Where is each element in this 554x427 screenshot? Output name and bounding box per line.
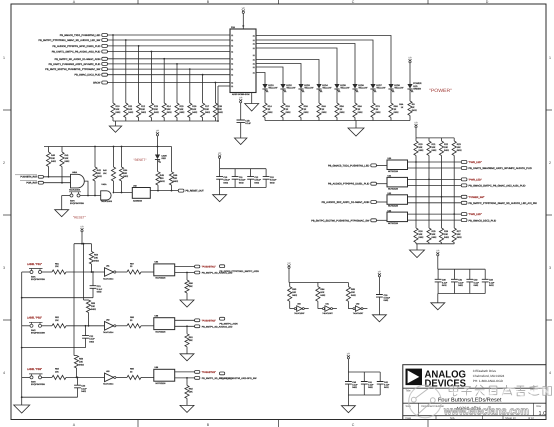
wire to buffer bbox=[141, 271, 154, 273]
svg-text:0402: 0402 bbox=[458, 284, 463, 287]
svg-text:LED7: LED7 bbox=[376, 84, 382, 87]
svg-text:12: 12 bbox=[231, 50, 233, 53]
pushbutton SW2 bbox=[29, 322, 45, 334]
svg-text:0402: 0402 bbox=[394, 111, 400, 114]
svg-text:U51: U51 bbox=[106, 265, 109, 268]
svg-text:Chelmsford, MA 01824: Chelmsford, MA 01824 bbox=[473, 374, 505, 378]
svg-text:U60: U60 bbox=[297, 303, 300, 306]
svg-text:0402: 0402 bbox=[97, 291, 102, 294]
ground gate bypass bbox=[372, 315, 386, 322]
LED DS9 POWER green bbox=[407, 82, 421, 92]
svg-text:0402: 0402 bbox=[432, 236, 438, 239]
wire cap bank3 top bus bbox=[438, 268, 485, 270]
wire gate U41A to buffer U42 bbox=[113, 192, 133, 194]
capacitor C21 debounce bbox=[90, 272, 103, 298]
svg-text:C22: C22 bbox=[89, 335, 94, 338]
svg-text:R41: R41 bbox=[65, 154, 70, 157]
title block address text bbox=[473, 369, 505, 383]
wire pull-up distribution bus bbox=[74, 243, 92, 356]
capacitor C22 debounce bbox=[82, 326, 95, 348]
wire row main bbox=[66, 271, 105, 273]
resistor R57 series 33 bbox=[127, 262, 141, 274]
svg-text:A: A bbox=[73, 0, 76, 4]
LED DS4 yellow bbox=[316, 84, 332, 92]
svg-text:"PWR_LED": "PWR_LED" bbox=[469, 178, 482, 181]
svg-text:"PUSHBTN2": "PUSHBTN2" bbox=[202, 319, 216, 322]
svg-text:EVQP34C03W: EVQP34C03W bbox=[31, 278, 45, 281]
svg-text:Title: Title bbox=[406, 390, 411, 393]
resistor R58 series 33 bbox=[127, 316, 141, 328]
svg-text:PB_AUDIO_SD2TWI_AXI2-GPI1_SW: PB_AUDIO_SD2TWI_AXI2-GPI1_SW bbox=[220, 377, 258, 380]
svg-text:0402: 0402 bbox=[218, 111, 224, 114]
wire buffer outputs bbox=[175, 372, 195, 379]
wire pull-up column 1 vertical bbox=[415, 156, 417, 229]
svg-text:PB_UART1_SMTPC_PB_AUDIO_AXI2_P: PB_UART1_SMTPC_PB_AUDIO_AXI2_PLID bbox=[52, 51, 101, 54]
svg-text:PB_UART1_SMAOEM2_AXIP1_GPUMP2_: PB_UART1_SMAOEM2_AXIP1_GPUMP2_AUDIO1_PLI… bbox=[469, 167, 532, 170]
capacitor C31 0.1uF bbox=[451, 269, 464, 293]
wire gate to series resistor 2 bbox=[116, 325, 127, 327]
svg-text:10K: 10K bbox=[51, 157, 55, 160]
resistor R56 pull-up 10K bbox=[74, 356, 84, 378]
wire U1 pin to LED column 6 bbox=[256, 64, 301, 85]
svg-text:LED4: LED4 bbox=[322, 84, 328, 87]
svg-text:0402: 0402 bbox=[457, 236, 463, 239]
resistor R25 pull-down 10K bbox=[427, 228, 437, 243]
svg-text:PUSHBTN_RST: PUSHBTN_RST bbox=[20, 176, 37, 179]
svg-text:0402: 0402 bbox=[192, 111, 198, 114]
wire to buffer bbox=[141, 325, 154, 327]
svg-text:10K: 10K bbox=[432, 146, 436, 149]
svg-text:NC7SZ126: NC7SZ126 bbox=[388, 222, 399, 225]
svg-text:0402: 0402 bbox=[154, 111, 160, 114]
svg-text:1K: 1K bbox=[340, 108, 343, 111]
net label input buffer row 4 bbox=[311, 219, 387, 223]
svg-text:YELLOW: YELLOW bbox=[358, 86, 368, 89]
svg-text:3 Elizabeth Drive: 3 Elizabeth Drive bbox=[473, 369, 497, 373]
svg-text:0.01uF: 0.01uF bbox=[254, 179, 261, 182]
buffer U55 NC7SZ126 bbox=[154, 315, 175, 334]
node PB2 sense connectors bbox=[195, 319, 233, 328]
svg-text:10K: 10K bbox=[116, 108, 120, 111]
svg-text:10K: 10K bbox=[55, 370, 59, 373]
svg-text:0402: 0402 bbox=[123, 175, 129, 178]
svg-text:0402: 0402 bbox=[116, 111, 122, 114]
svg-text:R46: R46 bbox=[173, 174, 178, 177]
svg-text:0402: 0402 bbox=[322, 111, 328, 114]
resistor R40 pull-up reset input bbox=[46, 147, 56, 178]
svg-text:0.1uF: 0.1uF bbox=[245, 122, 251, 125]
svg-text:R9A: R9A bbox=[399, 103, 404, 106]
svg-text:R21: R21 bbox=[432, 143, 437, 146]
svg-text:U53: U53 bbox=[106, 370, 109, 373]
svg-text:LED8: LED8 bbox=[394, 84, 400, 87]
svg-text:LABEL "PB1": LABEL "PB1" bbox=[27, 263, 42, 266]
svg-text:C21: C21 bbox=[97, 285, 102, 288]
svg-text:U55: U55 bbox=[155, 315, 160, 318]
resistor R13 pull-down bbox=[149, 51, 159, 121]
svg-text:PB_GMAC0_TXD1_PUSHBTN0_LED: PB_GMAC0_TXD1_PUSHBTN0_LED bbox=[60, 34, 101, 37]
resistor R61 pull-down bbox=[185, 326, 194, 354]
svg-text:R64: R64 bbox=[320, 288, 325, 291]
svg-text:"PWR_LED": "PWR_LED" bbox=[469, 161, 482, 164]
net label row 1 (left IC input) bbox=[60, 34, 230, 38]
gate U52 schmitt 74LVC1G14 bbox=[103, 318, 116, 334]
svg-text:NC7SZ126: NC7SZ126 bbox=[388, 187, 399, 190]
svg-text:10K: 10K bbox=[189, 339, 193, 342]
svg-text:D: D bbox=[486, 0, 489, 4]
svg-text:1.0: 1.0 bbox=[539, 411, 547, 417]
net label POR_RESET input bbox=[20, 181, 71, 185]
ground under U1 bbox=[245, 93, 259, 112]
capacitor C30 0.1uF bbox=[435, 269, 448, 293]
wire U1 pin to LED column 1 bbox=[256, 36, 391, 85]
svg-text:0402: 0402 bbox=[268, 111, 274, 114]
wire left ground bus bbox=[21, 272, 23, 405]
wire U1 pin to LED column 7 bbox=[256, 67, 283, 84]
wire U1 pin to LED column 3 bbox=[256, 44, 355, 85]
svg-text:U61: U61 bbox=[325, 303, 328, 306]
svg-text:LED1: LED1 bbox=[268, 84, 274, 87]
svg-text:A: A bbox=[73, 423, 76, 427]
net label row 9 (left IC input) bbox=[93, 81, 230, 85]
wire cap bank3 bottom bus bbox=[438, 293, 485, 295]
svg-text:0402: 0402 bbox=[254, 181, 259, 184]
power VP supply gate bypass bbox=[378, 270, 382, 294]
svg-text:B: B bbox=[207, 0, 210, 4]
svg-text:R20: R20 bbox=[419, 143, 424, 146]
node PB3 sense connectors bbox=[195, 371, 233, 380]
buffer U42 supervisor bbox=[132, 184, 150, 202]
resistor R26 pull-down 10K bbox=[439, 228, 449, 243]
svg-text:0.1uF: 0.1uF bbox=[474, 281, 480, 284]
svg-text:10K: 10K bbox=[180, 108, 184, 111]
resistor R45 reset LED series bbox=[156, 160, 166, 191]
svg-text:1K: 1K bbox=[286, 108, 289, 111]
svg-text:21: 21 bbox=[253, 71, 255, 74]
svg-text:R14: R14 bbox=[167, 105, 172, 108]
wire switch to gate U41A bbox=[62, 195, 101, 197]
svg-text:U54: U54 bbox=[155, 261, 160, 264]
power VP supply above U1 bbox=[242, 7, 246, 29]
svg-text:4: 4 bbox=[549, 371, 551, 375]
svg-text:R22: R22 bbox=[444, 143, 449, 146]
svg-text:0402: 0402 bbox=[286, 111, 292, 114]
resistor R10 pull-down bbox=[111, 34, 121, 121]
wire buffer outputs bbox=[175, 320, 195, 327]
svg-text:R17: R17 bbox=[205, 105, 210, 108]
svg-text:10K: 10K bbox=[97, 172, 101, 175]
ground cap bank2 bbox=[341, 395, 355, 413]
buffer U54 NC7SZ126 bbox=[154, 261, 175, 280]
capacitor C32 0.1uF bbox=[466, 269, 479, 293]
gate U40A AND 74LVC1G08 bbox=[69, 171, 84, 192]
svg-text:21: 21 bbox=[253, 47, 255, 50]
node PB1 sense connectors bbox=[195, 265, 233, 274]
wire U1 pin to LED column 4 bbox=[256, 48, 337, 84]
svg-text:10K: 10K bbox=[457, 233, 461, 236]
svg-text:0402: 0402 bbox=[292, 294, 298, 297]
svg-text:"PUSHBTN1": "PUSHBTN1" bbox=[202, 266, 216, 269]
svg-text:10K: 10K bbox=[91, 305, 95, 308]
svg-text:0402: 0402 bbox=[432, 149, 438, 152]
svg-text:P1B: P1B bbox=[231, 26, 235, 29]
svg-text:YELLOW: YELLOW bbox=[304, 86, 314, 89]
capacitor C40 0.1uF bbox=[345, 372, 358, 395]
LED DS6 yellow bbox=[352, 84, 368, 92]
svg-text:21: 21 bbox=[253, 34, 255, 37]
resistor R65 open-drain pull-up bbox=[346, 283, 356, 309]
svg-text:10K: 10K bbox=[419, 146, 423, 149]
node output connector row 3 bbox=[461, 195, 537, 205]
svg-text:0402: 0402 bbox=[128, 111, 134, 114]
ground cap bank1 bbox=[213, 188, 227, 202]
svg-text:Rev: Rev bbox=[537, 405, 542, 408]
resistor R4 LED series 1K bbox=[317, 89, 327, 121]
power VP supply cap bank C10 bbox=[218, 152, 222, 169]
svg-text:"POWER": "POWER" bbox=[429, 88, 452, 94]
svg-text:0402: 0402 bbox=[384, 299, 389, 302]
svg-text:NC7SZ126: NC7SZ126 bbox=[156, 330, 167, 333]
svg-text:21: 21 bbox=[253, 42, 255, 45]
svg-text:U52: U52 bbox=[106, 318, 109, 321]
gate U62 open-drain 74LVC1G07 bbox=[348, 303, 367, 315]
svg-text:21: 21 bbox=[253, 58, 255, 61]
node output connector row 4 bbox=[461, 213, 496, 223]
svg-text:10K: 10K bbox=[432, 233, 436, 236]
svg-text:10K: 10K bbox=[320, 291, 324, 294]
svg-text:10K: 10K bbox=[154, 108, 158, 111]
svg-text:2: 2 bbox=[549, 161, 551, 165]
svg-text:GREEN: GREEN bbox=[413, 87, 421, 90]
svg-text:10K: 10K bbox=[94, 257, 98, 260]
svg-text:0402: 0402 bbox=[320, 294, 326, 297]
ground row 1 pull-down bbox=[180, 300, 194, 307]
pushbutton SW3 bbox=[29, 374, 45, 386]
svg-text:"PWR_LED": "PWR_LED" bbox=[469, 213, 482, 216]
svg-text:1K: 1K bbox=[358, 108, 361, 111]
svg-text:R58: R58 bbox=[130, 316, 135, 319]
svg-text:U41A: U41A bbox=[102, 183, 108, 186]
resistor R27 pull-down 10K bbox=[452, 228, 462, 243]
svg-text:C30: C30 bbox=[442, 279, 447, 282]
node SYS_RST output connector bbox=[178, 189, 204, 193]
svg-text:74LVC1G14: 74LVC1G14 bbox=[103, 331, 113, 334]
resistor R8 LED series 1K bbox=[389, 89, 399, 121]
ground row 3 pull-down bbox=[180, 405, 194, 412]
svg-text:U62: U62 bbox=[356, 303, 359, 306]
svg-text:0.01uF: 0.01uF bbox=[239, 179, 246, 182]
svg-text:0.01uF: 0.01uF bbox=[270, 179, 277, 182]
net label input buffer row 1 bbox=[328, 164, 387, 168]
node output connector row 2 bbox=[461, 178, 525, 188]
wire to buffer bbox=[141, 376, 154, 378]
gate U41A AND 74LVC1G08 bbox=[101, 183, 113, 203]
svg-text:12: 12 bbox=[231, 74, 233, 77]
svg-text:33: 33 bbox=[130, 265, 133, 268]
capacitor C12 0.01uF bbox=[247, 169, 261, 188]
svg-text:0.1uF: 0.1uF bbox=[368, 384, 374, 387]
wire RESET top bus bbox=[44, 146, 172, 148]
svg-text:PB_SMT2_SD2TWI_PUSHBTN1_PTP0GM: PB_SMT2_SD2TWI_PUSHBTN1_PTP0GMAC_SW bbox=[45, 68, 101, 71]
svg-text:PB_GMAC_D2C2_PLID: PB_GMAC_D2C2_PLID bbox=[75, 74, 101, 77]
svg-text:33: 33 bbox=[130, 319, 133, 322]
svg-text:1: 1 bbox=[3, 56, 5, 60]
resistor R12 pull-down bbox=[137, 45, 147, 121]
svg-text:10K: 10K bbox=[167, 108, 171, 111]
svg-text:0.01uF: 0.01uF bbox=[223, 179, 230, 182]
svg-text:10K: 10K bbox=[218, 108, 222, 111]
resistor R16 pull-down bbox=[188, 68, 198, 121]
svg-text:R9: R9 bbox=[412, 103, 416, 106]
svg-text:R23: R23 bbox=[457, 143, 462, 146]
svg-text:0402: 0402 bbox=[340, 111, 346, 114]
wire pull-up column 4 vertical bbox=[453, 156, 455, 229]
svg-text:NC7SZ126: NC7SZ126 bbox=[388, 170, 399, 173]
wire buffer row 4 outputs bbox=[408, 213, 462, 220]
svg-text:R43: R43 bbox=[103, 169, 106, 172]
capacitor C10 0.01uF bbox=[216, 169, 230, 188]
svg-text:C: C bbox=[352, 0, 355, 4]
svg-text:0402: 0402 bbox=[376, 111, 382, 114]
resistor R64 open-drain pull-up bbox=[316, 283, 326, 309]
ground cap bank3 bbox=[431, 294, 445, 310]
svg-text:R56: R56 bbox=[79, 358, 84, 361]
svg-text:0402: 0402 bbox=[239, 181, 244, 184]
buffer U33 NC7SZ126 bbox=[387, 209, 408, 225]
svg-text:PB_GPIO0_PTP0TRIG1_SMTPC_AXIN: PB_GPIO0_PTP0TRIG1_SMTPC_AXIN bbox=[220, 270, 260, 273]
svg-text:10K: 10K bbox=[103, 172, 107, 175]
svg-text:0.1uF: 0.1uF bbox=[489, 281, 495, 284]
svg-text:10K: 10K bbox=[173, 177, 177, 180]
net label input buffer row 2 bbox=[328, 182, 387, 186]
capacitor C41 0.1uF bbox=[361, 372, 374, 395]
svg-text:1K: 1K bbox=[304, 108, 307, 111]
svg-text:0402: 0402 bbox=[81, 390, 86, 393]
svg-text:www.elecfans.com: www.elecfans.com bbox=[443, 406, 529, 418]
svg-text:Date: Date bbox=[406, 417, 412, 420]
svg-text:R27: R27 bbox=[457, 230, 462, 233]
svg-text:R62: R62 bbox=[189, 387, 194, 390]
wire U1 pin to LED column 2 bbox=[256, 40, 373, 84]
svg-text:C: C bbox=[352, 423, 355, 427]
svg-text:PB_GMAC0_TXD1_PUSHBTN1_LED: PB_GMAC0_TXD1_PUSHBTN1_LED bbox=[328, 164, 370, 167]
svg-text:R57: R57 bbox=[130, 262, 135, 265]
resistor R18 pull-down bbox=[213, 82, 223, 121]
svg-text:0402: 0402 bbox=[412, 109, 418, 112]
net label row 8 (left IC input) bbox=[75, 73, 230, 77]
power VP supply push-button pull-ups bbox=[80, 225, 84, 243]
svg-text:10K: 10K bbox=[55, 265, 59, 268]
wire cap bank1 top bus bbox=[220, 168, 267, 170]
svg-text:C33: C33 bbox=[489, 279, 494, 282]
svg-text:74LVC1G08: 74LVC1G08 bbox=[69, 189, 81, 192]
capacitor C11 0.01uF bbox=[232, 169, 246, 188]
svg-text:0402: 0402 bbox=[97, 175, 103, 178]
svg-text:PB_AUDIO1_SD2_AXIP1_D1-GMAC_AX: PB_AUDIO1_SD2_AXIP1_D1-GMAC_AXIN bbox=[322, 201, 370, 204]
buffer U31 NC7SZ126 bbox=[387, 175, 408, 191]
svg-text:SRCW: SRCW bbox=[93, 82, 101, 85]
svg-text:YELLOW: YELLOW bbox=[286, 86, 296, 89]
resistor R5 LED series 1K bbox=[335, 89, 345, 121]
svg-text:10K: 10K bbox=[351, 291, 355, 294]
LED DS7 yellow bbox=[370, 84, 386, 92]
Analog Devices logo bbox=[406, 369, 467, 390]
svg-text:NC7SZ126: NC7SZ126 bbox=[388, 205, 399, 208]
svg-text:LED3: LED3 bbox=[304, 84, 310, 87]
svg-text:0402: 0402 bbox=[167, 111, 173, 114]
resistor R17 pull-down bbox=[201, 74, 211, 121]
svg-text:10K: 10K bbox=[457, 146, 461, 149]
wire cap bank1 bottom bus bbox=[220, 187, 267, 189]
capacitor C42 0.1uF bbox=[377, 372, 390, 395]
svg-text:R45: R45 bbox=[160, 174, 165, 177]
svg-text:R59: R59 bbox=[130, 368, 135, 371]
wire row ground return bus bbox=[22, 297, 93, 299]
resistor R44 pull-up bbox=[119, 146, 128, 193]
svg-text:R4A: R4A bbox=[322, 105, 327, 108]
resistor R9 power LED bbox=[399, 89, 417, 121]
svg-text:PH: 1-800-ANALOGD: PH: 1-800-ANALOGD bbox=[473, 379, 504, 383]
pushbutton SW4 reset bbox=[69, 192, 84, 205]
node stub connector 1 bbox=[220, 265, 260, 273]
svg-text:PB_SMTP1_SD_AUDIO2_LED: PB_SMTP1_SD_AUDIO2_LED bbox=[202, 325, 233, 328]
title block labels bbox=[406, 390, 542, 420]
svg-text:0402: 0402 bbox=[489, 284, 494, 287]
svg-text:R55: R55 bbox=[91, 302, 96, 305]
svg-text:R42: R42 bbox=[97, 169, 102, 172]
svg-text:"RESET": "RESET" bbox=[134, 158, 147, 162]
svg-text:12: 12 bbox=[231, 39, 233, 42]
svg-text:U42: U42 bbox=[133, 184, 138, 187]
resistor R52 series 10K bbox=[52, 316, 66, 328]
title block frame bbox=[403, 365, 546, 420]
wire pull-up column 2 vertical bbox=[428, 156, 430, 229]
svg-text:3: 3 bbox=[549, 266, 551, 270]
resistor R14 pull-down bbox=[162, 58, 172, 121]
svg-text:10K: 10K bbox=[292, 291, 296, 294]
svg-text:0402: 0402 bbox=[351, 294, 357, 297]
svg-text:DEVICES: DEVICES bbox=[425, 379, 467, 390]
svg-text:R2A: R2A bbox=[286, 105, 291, 108]
wire buffer output to connector bbox=[150, 190, 178, 192]
resistor R41 pull-up reset input bbox=[60, 147, 70, 184]
ground pull-down network bbox=[410, 244, 425, 258]
buffer U56 NC7SZ126 bbox=[154, 366, 175, 385]
wire resistor-bank bottom bus bbox=[113, 120, 218, 122]
svg-text:0402: 0402 bbox=[160, 180, 166, 183]
LED DS5 yellow bbox=[334, 84, 350, 92]
buffer U30 NC7SZ126 bbox=[387, 157, 408, 173]
resistor R3 LED series 1K bbox=[299, 89, 309, 121]
LED DS8 yellow bbox=[388, 84, 404, 92]
svg-text:R12: R12 bbox=[141, 105, 146, 108]
svg-text:4: 4 bbox=[3, 371, 5, 375]
svg-text:R25: R25 bbox=[432, 230, 437, 233]
watermark chinese-style text line bbox=[449, 385, 551, 396]
svg-text:0402: 0402 bbox=[79, 364, 85, 367]
svg-text:EVQP34C03W: EVQP34C03W bbox=[31, 383, 45, 386]
svg-text:LED6: LED6 bbox=[358, 84, 364, 87]
svg-text:YELLOW: YELLOW bbox=[340, 86, 350, 89]
svg-text:12: 12 bbox=[231, 81, 233, 84]
svg-text:B: B bbox=[207, 423, 210, 427]
net label row 4 (left IC input) bbox=[52, 50, 230, 54]
wire cap bank2 top bus bbox=[348, 371, 380, 373]
svg-text:1: 1 bbox=[549, 56, 551, 60]
svg-text:10K: 10K bbox=[55, 319, 59, 322]
svg-text:0402: 0402 bbox=[141, 111, 147, 114]
svg-text:330: 330 bbox=[160, 177, 164, 180]
